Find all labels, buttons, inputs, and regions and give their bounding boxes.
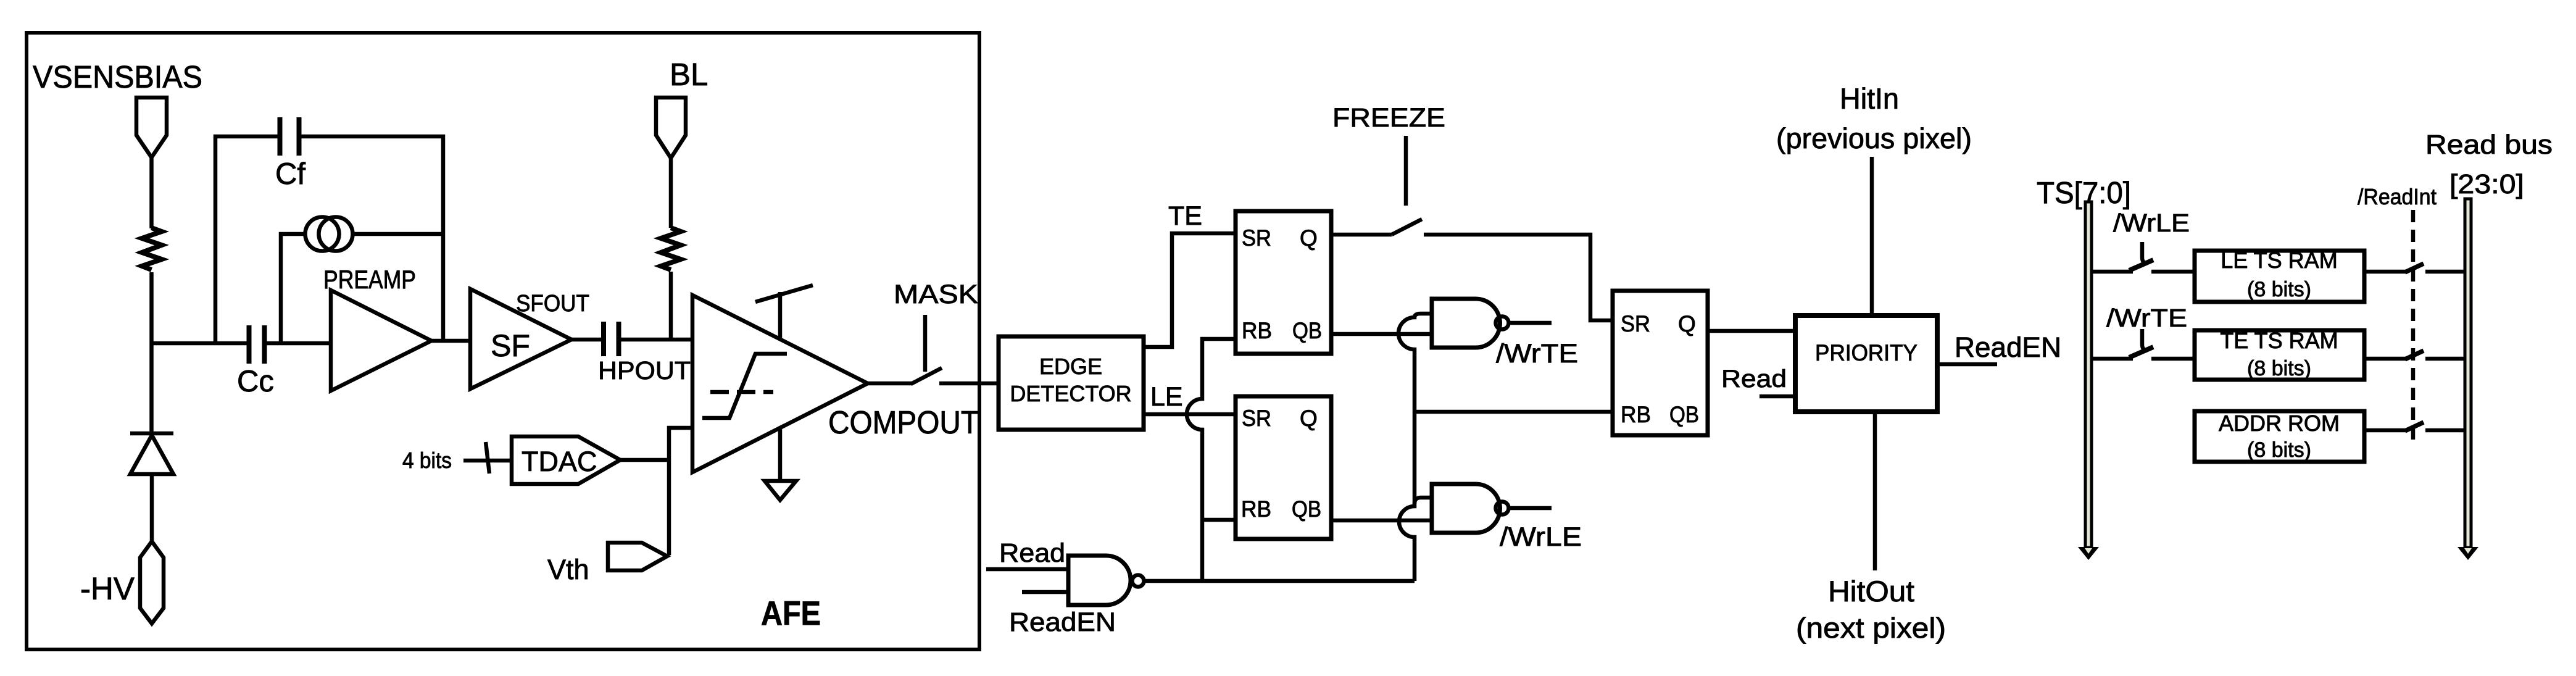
capacitor Cf bbox=[278, 117, 283, 156]
wire bbox=[621, 338, 692, 342]
svg-text:LE TS RAM: LE TS RAM bbox=[2221, 248, 2337, 273]
block EDGE DETECTOR bbox=[999, 336, 1144, 430]
svg-text:RB: RB bbox=[1242, 318, 1272, 343]
latch U6 (hit) bbox=[1613, 291, 1708, 435]
svg-text:/WrLE: /WrLE bbox=[1500, 522, 1582, 552]
switch read TE bbox=[2405, 351, 2424, 359]
bus TS[7:0] bbox=[2085, 202, 2092, 548]
svg-text:SR: SR bbox=[1242, 406, 1271, 431]
wire HitOut bbox=[1873, 412, 1877, 570]
wire bbox=[150, 474, 154, 541]
wire bbox=[2425, 428, 2466, 433]
wire bbox=[2425, 270, 2466, 274]
wire bbox=[2364, 428, 2406, 433]
wire main input node bbox=[152, 341, 247, 346]
wire bbox=[2151, 357, 2195, 361]
svg-text:ReadEN: ReadEN bbox=[1955, 332, 2061, 363]
svg-text:PRIORITY: PRIORITY bbox=[1815, 340, 1917, 365]
diode D1 bbox=[130, 432, 173, 436]
svg-text:/WrTE: /WrTE bbox=[2106, 304, 2187, 332]
svg-text:-HV: -HV bbox=[80, 571, 135, 606]
wire Q1 out bbox=[1331, 233, 1392, 237]
wire bbox=[266, 341, 331, 346]
svg-text:VSENSBIAS: VSENSBIAS bbox=[33, 59, 202, 94]
svg-text:(8 bits): (8 bits) bbox=[2247, 357, 2311, 380]
svg-text:DETECTOR: DETECTOR bbox=[1010, 381, 1131, 406]
nand U5 /WrLE bbox=[1432, 484, 1500, 533]
svg-text:[23:0]: [23:0] bbox=[2449, 169, 2524, 199]
switch /WrTE bbox=[2129, 347, 2153, 357]
wire RB latch U2 bbox=[1202, 518, 1236, 522]
latch U2 (LE) bbox=[1236, 396, 1331, 539]
svg-text:Read: Read bbox=[999, 538, 1065, 568]
wire bbox=[939, 382, 999, 386]
pin VSENSBIAS bbox=[136, 98, 167, 157]
wire Read priority bbox=[1760, 394, 1795, 399]
block ADDR ROM bbox=[2195, 411, 2364, 462]
wire bbox=[2090, 270, 2133, 274]
wire /ReadInt dashed bbox=[2411, 210, 2416, 445]
svg-text:ReadEN: ReadEN bbox=[1009, 607, 1116, 637]
svg-text:Read bus: Read bus bbox=[2425, 130, 2553, 160]
wire TE bbox=[1144, 233, 1236, 347]
svg-text:COMPOUT: COMPOUT bbox=[828, 405, 979, 441]
svg-text:SR: SR bbox=[1621, 311, 1650, 336]
wire RB net with hop over LE bbox=[1187, 339, 1236, 581]
wire HitIn bbox=[1870, 157, 1874, 315]
pin BL bbox=[656, 98, 686, 158]
svg-text:Q: Q bbox=[1678, 311, 1696, 336]
nand U3 bbox=[1068, 556, 1131, 605]
wire bbox=[620, 458, 669, 462]
wire RB3 line bbox=[1415, 410, 1613, 414]
wire bbox=[669, 272, 673, 340]
switch read LE bbox=[2405, 264, 2424, 272]
svg-text:SF: SF bbox=[491, 328, 530, 363]
wire bbox=[149, 272, 154, 433]
svg-text:RB: RB bbox=[1621, 402, 1651, 427]
svg-text:(8 bits): (8 bits) bbox=[2247, 438, 2311, 462]
svg-text:TE: TE bbox=[1168, 201, 1202, 231]
svg-text:RB: RB bbox=[1241, 496, 1271, 522]
switch MASK bbox=[911, 368, 942, 384]
svg-text:Read: Read bbox=[1721, 365, 1787, 393]
pin Vth bbox=[608, 543, 667, 570]
wire write-strobe net with hops bbox=[1398, 314, 1432, 581]
switch read ADDR bbox=[2405, 422, 2424, 431]
wire bbox=[2090, 357, 2133, 361]
block LE TS RAM bbox=[2195, 251, 2364, 302]
switch FREEZE bbox=[1392, 219, 1422, 235]
svg-text:QB: QB bbox=[1292, 318, 1322, 343]
latch U1 (TE) bbox=[1236, 211, 1331, 354]
wire bbox=[2364, 270, 2406, 274]
pin -HV bbox=[140, 541, 164, 624]
wire QB2 to nand bbox=[1331, 519, 1432, 523]
capacitor Cc bbox=[247, 325, 252, 364]
svg-text:AFE: AFE bbox=[761, 594, 821, 632]
wire bbox=[571, 338, 602, 342]
resistor R2 bbox=[661, 228, 681, 270]
wire ReadEN out bbox=[1937, 362, 1997, 367]
svg-text:BL: BL bbox=[670, 57, 708, 92]
clock symbol on comparator bbox=[778, 292, 783, 338]
wire branch to /WrLE input bbox=[1415, 498, 1432, 504]
wire FREEZE control bbox=[1404, 136, 1408, 206]
svg-text:TE TS RAM: TE TS RAM bbox=[2220, 328, 2338, 353]
wire LE bbox=[1144, 412, 1236, 417]
svg-text:TDAC: TDAC bbox=[521, 446, 597, 477]
svg-text:SR: SR bbox=[1242, 225, 1271, 251]
bus Read bus [23:0] bbox=[2465, 199, 2471, 548]
wire bbox=[149, 157, 154, 228]
wire Q3 to priority bbox=[1708, 329, 1795, 333]
svg-text:EDGE: EDGE bbox=[1039, 354, 1102, 379]
svg-text:HitOut: HitOut bbox=[1828, 575, 1914, 607]
resistor R1 bbox=[142, 228, 162, 270]
svg-text:/WrTE: /WrTE bbox=[1496, 339, 1578, 369]
wire comparator output bbox=[868, 382, 912, 386]
wire bbox=[669, 158, 673, 228]
svg-text:SFOUT: SFOUT bbox=[516, 291, 589, 317]
svg-text:Vth: Vth bbox=[547, 554, 589, 585]
op-amp PREAMP bbox=[331, 290, 431, 391]
block TE TS RAM bbox=[2195, 330, 2364, 380]
wire bbox=[463, 459, 512, 463]
wire nand output bbox=[1144, 579, 1415, 583]
block PRIORITY bbox=[1795, 315, 1937, 412]
wire to latch U6 bbox=[1424, 235, 1613, 320]
hysteresis curve bbox=[702, 354, 787, 418]
wire bbox=[2364, 357, 2406, 361]
current source I1 bbox=[305, 217, 339, 251]
svg-text:Q: Q bbox=[1300, 406, 1318, 431]
svg-text:LE: LE bbox=[1150, 382, 1183, 412]
bus slash bbox=[486, 442, 489, 474]
svg-text:(previous pixel): (previous pixel) bbox=[1776, 122, 1972, 154]
svg-text:MASK: MASK bbox=[894, 280, 978, 309]
wire bbox=[2151, 270, 2195, 274]
wire feedback loop Cf bbox=[215, 136, 278, 341]
svg-text:HPOUT: HPOUT bbox=[598, 356, 691, 385]
svg-text:HitIn: HitIn bbox=[1840, 82, 1899, 115]
svg-text:ADDR ROM: ADDR ROM bbox=[2219, 411, 2340, 436]
switch /WrLE bbox=[2129, 260, 2153, 270]
svg-text:(next pixel): (next pixel) bbox=[1796, 612, 1946, 644]
AFE block border bbox=[27, 33, 979, 649]
wire bbox=[2425, 357, 2466, 361]
block TDAC bbox=[512, 436, 620, 484]
svg-text:4 bits: 4 bits bbox=[402, 448, 452, 473]
svg-text:(8 bits): (8 bits) bbox=[2247, 278, 2311, 301]
svg-text:/WrLE: /WrLE bbox=[2113, 209, 2190, 237]
wire bbox=[431, 339, 472, 343]
svg-text:FREEZE: FREEZE bbox=[1332, 103, 1445, 133]
wire current source branch bbox=[281, 234, 305, 341]
wire ReadEN bbox=[1022, 590, 1068, 595]
svg-text:QB: QB bbox=[1669, 402, 1699, 427]
comparator U0 bbox=[692, 295, 868, 472]
svg-text:PREAMP: PREAMP bbox=[323, 265, 416, 294]
svg-text:QB: QB bbox=[1292, 496, 1321, 522]
ground bbox=[778, 428, 783, 481]
svg-text:/ReadInt: /ReadInt bbox=[2358, 184, 2437, 209]
svg-text:Cf: Cf bbox=[275, 157, 305, 191]
nand U4 /WrTE bbox=[1432, 299, 1500, 348]
buffer SF bbox=[470, 289, 571, 389]
svg-text:Cc: Cc bbox=[237, 365, 274, 398]
wire QB1 to nand bbox=[1331, 332, 1432, 336]
svg-text:Q: Q bbox=[1300, 225, 1318, 251]
wire Read bbox=[986, 567, 1068, 572]
capacitor HP bbox=[601, 322, 606, 356]
